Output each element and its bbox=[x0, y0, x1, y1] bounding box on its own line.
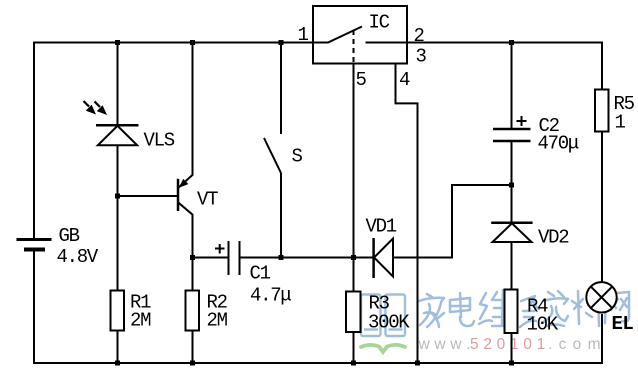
svg-text:5: 5 bbox=[356, 69, 367, 91]
svg-text:VD2: VD2 bbox=[538, 227, 569, 249]
svg-text:S: S bbox=[292, 146, 303, 168]
svg-text:IC: IC bbox=[369, 12, 390, 34]
svg-text:EL: EL bbox=[612, 313, 634, 335]
svg-text:1: 1 bbox=[615, 112, 626, 134]
svg-text:2M: 2M bbox=[130, 310, 151, 332]
svg-text:4: 4 bbox=[399, 69, 410, 91]
svg-text:. c o m: . c o m bbox=[548, 336, 602, 353]
svg-text:300K: 300K bbox=[368, 312, 410, 334]
svg-text:VLS: VLS bbox=[144, 130, 175, 152]
svg-text:VD1: VD1 bbox=[366, 216, 397, 238]
svg-text:4.7μ: 4.7μ bbox=[250, 285, 291, 307]
svg-text:VT: VT bbox=[197, 189, 218, 211]
svg-text:10K: 10K bbox=[527, 314, 559, 336]
svg-text:2: 2 bbox=[414, 25, 425, 47]
svg-text:5 2 0 1 0 1: 5 2 0 1 0 1 bbox=[470, 336, 545, 353]
svg-text:3: 3 bbox=[416, 46, 427, 68]
svg-text:w w w .: w w w . bbox=[418, 336, 471, 353]
svg-text:GB: GB bbox=[59, 225, 80, 247]
svg-text:C1: C1 bbox=[250, 263, 271, 285]
svg-text:4.8V: 4.8V bbox=[57, 246, 99, 268]
svg-text:470μ: 470μ bbox=[538, 133, 579, 155]
svg-text:1: 1 bbox=[298, 24, 309, 46]
svg-text:2M: 2M bbox=[207, 310, 228, 332]
